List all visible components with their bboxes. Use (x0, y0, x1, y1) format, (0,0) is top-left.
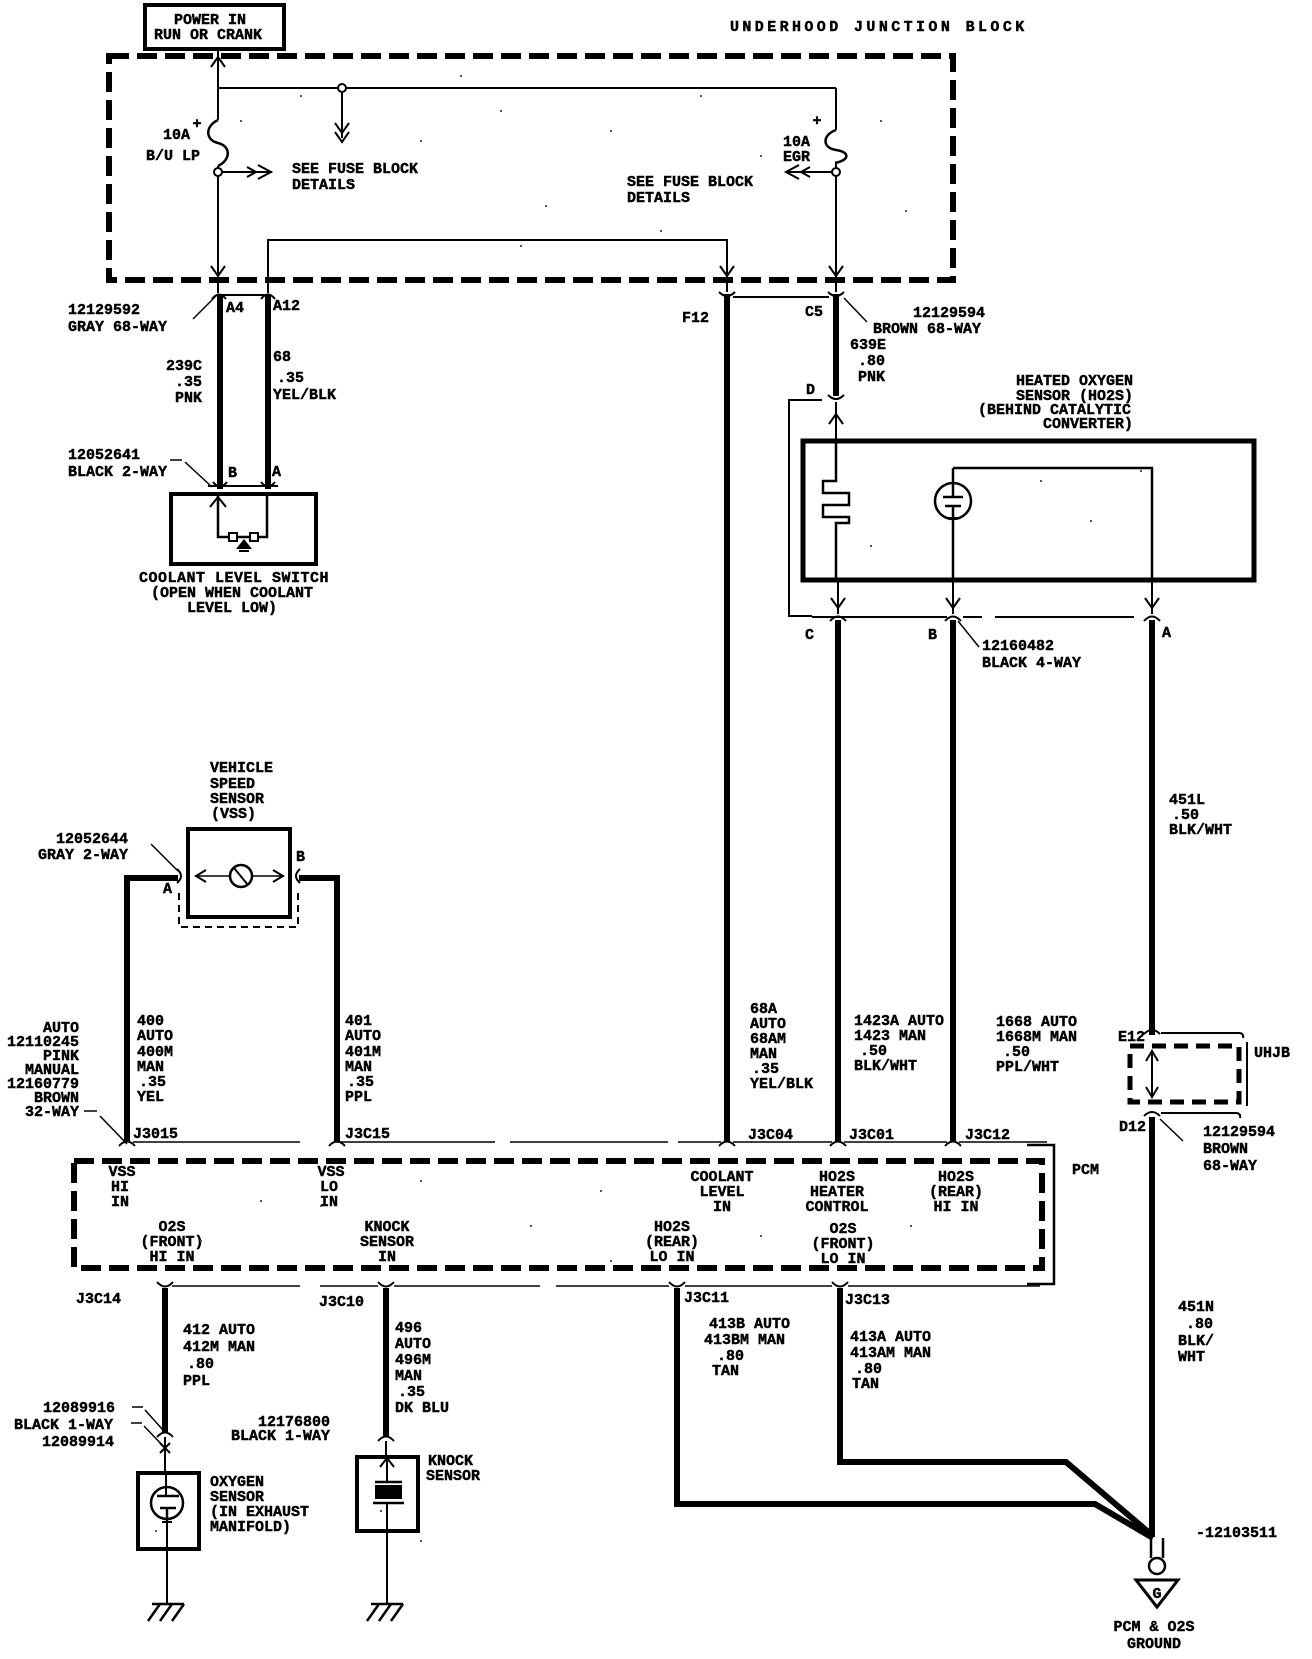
svg-text:B: B (296, 849, 305, 866)
svg-text:AUTO: AUTO (345, 1028, 381, 1045)
svg-text:YEL/BLK: YEL/BLK (273, 387, 336, 404)
wire 1668 PPL/WHT (B to PCM) (950, 620, 956, 1141)
svg-text:D: D (806, 382, 815, 399)
wire 401 PPL (VSS B to PCM) (299, 878, 337, 1141)
UHJB in-line connector E12/D12 (1118, 1029, 1290, 1175)
svg-text:BLK/WHT: BLK/WHT (854, 1058, 917, 1075)
svg-text:12089914: 12089914 (42, 1434, 114, 1451)
svg-text:DETAILS: DETAILS (292, 177, 355, 194)
svg-text:WHT: WHT (1178, 1349, 1205, 1366)
svg-text:HI IN: HI IN (149, 1249, 194, 1266)
svg-text:AUTO: AUTO (137, 1028, 173, 1045)
svg-text:413B AUTO: 413B AUTO (709, 1316, 790, 1333)
svg-text:IN: IN (320, 1194, 338, 1211)
svg-text:IN: IN (378, 1249, 396, 1266)
underhood junction block dashed box (109, 56, 953, 280)
sensor element circle (HO2S) (935, 483, 971, 519)
connector 12160482 BLACK 4-WAY terminal row (812, 616, 947, 618)
svg-text:A: A (1162, 625, 1171, 642)
leader 12129592 (193, 296, 216, 319)
svg-text:C5: C5 (805, 304, 823, 321)
connector 12052644 leader (151, 844, 178, 871)
node junction circle on bus (338, 84, 346, 92)
svg-text:12089916: 12089916 (43, 1400, 115, 1417)
terminal line F12-C5 (733, 296, 829, 298)
wire 413B TAN (J3C11 to ground junction) (677, 1288, 1153, 1538)
svg-text:LO IN: LO IN (649, 1249, 694, 1266)
svg-text:(VSS): (VSS) (211, 806, 256, 823)
scan speckle noise (155, 75, 1142, 1542)
switch contacts (229, 533, 237, 541)
connector 12129592 terminal line A4-A12 (217, 294, 270, 296)
float triangle (236, 539, 252, 549)
svg-text:UHJB: UHJB (1254, 1045, 1290, 1062)
svg-text:J3C10: J3C10 (319, 1294, 364, 1311)
exit wires with arrows (837, 580, 839, 614)
svg-text:J3015: J3015 (133, 1126, 178, 1143)
svg-text:A: A (272, 464, 281, 481)
svg-text:MANIFOLD): MANIFOLD) (210, 1519, 291, 1536)
svg-text:DK BLU: DK BLU (395, 1400, 449, 1417)
svg-text:TAN: TAN (712, 1363, 739, 1380)
ground symbol G triangle (1136, 1580, 1178, 1607)
wire 1423A BLK/WHT (C to PCM) (835, 620, 841, 1141)
node circle below right fuse (832, 168, 840, 176)
oxygen sensor box (138, 1473, 199, 1549)
wire 413A TAN (J3C13 to ground junction) (840, 1288, 1153, 1536)
svg-text:HI IN: HI IN (933, 1199, 978, 1216)
svg-text:496M: 496M (395, 1352, 431, 1369)
svg-text:BLACK 2-WAY: BLACK 2-WAY (68, 464, 167, 481)
connector 12052641 leader (170, 459, 182, 461)
svg-text:412M MAN: 412M MAN (183, 1339, 255, 1356)
svg-text:CONVERTER): CONVERTER) (1043, 416, 1133, 433)
svg-text:J3C01: J3C01 (849, 1127, 894, 1144)
wire below left fuse (217, 166, 219, 281)
svg-text:SEE FUSE BLOCK: SEE FUSE BLOCK (627, 174, 753, 191)
svg-text:SENSOR: SENSOR (426, 1468, 480, 1485)
svg-text:J3C14: J3C14 (76, 1291, 121, 1308)
PCM bottom terminal row (172, 1285, 300, 1287)
svg-text:A4: A4 (226, 300, 244, 317)
switch internals (218, 496, 267, 537)
svg-text:PNK: PNK (175, 390, 202, 407)
heated oxygen sensor HO2S box (803, 441, 1254, 580)
svg-text:12129594: 12129594 (1203, 1124, 1275, 1141)
svg-text:.80: .80 (1186, 1316, 1213, 1333)
terminal B (VSS right) (296, 869, 300, 883)
PCM top terminal row (133, 1141, 300, 1143)
svg-text:+: + (812, 113, 821, 130)
svg-text:.35: .35 (398, 1384, 425, 1401)
svg-text:32-WAY: 32-WAY (25, 1104, 79, 1121)
svg-text:12129594: 12129594 (913, 305, 985, 322)
arrow down into C5 (829, 266, 843, 276)
jumper wire A12 to F12 inside junction block (268, 240, 727, 293)
svg-text:413BM MAN: 413BM MAN (704, 1332, 785, 1349)
svg-text:496: 496 (395, 1320, 422, 1337)
ground symbol (knock sensor) (371, 1603, 403, 1606)
wire F12 to PCM coolant level in (724, 294, 730, 1141)
svg-text:J3C12: J3C12 (965, 1127, 1010, 1144)
VSS pickup circle (230, 865, 252, 887)
heater element coil (823, 441, 849, 580)
arrow to SEE FUSE BLOCK DETAILS (left) (222, 171, 272, 173)
arrow down into F12 (720, 266, 734, 276)
wire 400 YEL (VSS A to PCM) (127, 878, 178, 1141)
svg-text:239C: 239C (166, 358, 202, 375)
wire 451L BLK/WHT (A to UHJB E12) (1149, 620, 1155, 1035)
coolant level switch box (171, 494, 316, 564)
vehicle speed sensor VSS box (188, 829, 290, 917)
wire horizontal bus (218, 87, 836, 89)
svg-text:PPL: PPL (183, 1373, 210, 1390)
terminal A (VSS left) (177, 869, 181, 883)
svg-text:DETAILS: DETAILS (627, 190, 690, 207)
svg-text:.80: .80 (187, 1356, 214, 1373)
svg-text:J3C11: J3C11 (684, 1290, 729, 1307)
internal wire to pin A (953, 468, 1152, 580)
svg-text:AUTO: AUTO (395, 1336, 431, 1353)
arrow to SEE FUSE BLOCK DETAILS (right) (786, 171, 832, 173)
wire C5 down to D (833, 294, 839, 396)
ground symbol (oxygen sensor) (152, 1603, 184, 1606)
arrow up at junction block entry (211, 57, 225, 67)
svg-text:12129592: 12129592 (68, 302, 140, 319)
svg-text:E12: E12 (1118, 1029, 1145, 1046)
svg-text:413AM MAN: 413AM MAN (850, 1345, 931, 1362)
svg-text:B: B (928, 627, 937, 644)
svg-text:F12: F12 (682, 310, 709, 327)
svg-text:A: A (163, 881, 172, 898)
svg-text:412 AUTO: 412 AUTO (183, 1322, 255, 1339)
in-line connector at knock sensor (378, 1437, 394, 1442)
svg-text:.80: .80 (858, 353, 885, 370)
svg-text:J3C15: J3C15 (345, 1126, 390, 1143)
svg-text:PCM: PCM (1072, 1162, 1099, 1179)
svg-text:PPL/WHT: PPL/WHT (996, 1059, 1059, 1076)
svg-text:12052644: 12052644 (56, 831, 128, 848)
svg-text:639E: 639E (850, 337, 886, 354)
POWER IN RUN OR CRANK box (145, 5, 284, 49)
connector 12129594 leader (C5) (844, 298, 867, 322)
knock sensor element (380, 1458, 394, 1467)
node circle below left fuse (214, 168, 222, 176)
svg-text:UNDERHOOD JUNCTION BLOCK: UNDERHOOD JUNCTION BLOCK (730, 19, 1028, 36)
svg-text:RUN OR CRANK: RUN OR CRANK (154, 27, 262, 44)
svg-text:BLACK 1-WAY: BLACK 1-WAY (14, 1417, 113, 1434)
svg-text:GRAY 68-WAY: GRAY 68-WAY (68, 319, 167, 336)
fuse 10A B/U LP (146, 116, 228, 166)
wire 68 (A12 to coolant switch A) (265, 296, 271, 489)
ring terminal 12103511 (1150, 1538, 1153, 1558)
svg-text:413A AUTO: 413A AUTO (850, 1329, 931, 1346)
svg-text:BROWN: BROWN (1203, 1141, 1248, 1158)
svg-text:YEL: YEL (137, 1089, 164, 1106)
svg-text:LO IN: LO IN (820, 1251, 865, 1268)
fuse 10A EGR (783, 113, 846, 166)
in-line connector at oxygen sensor (157, 1433, 173, 1438)
svg-text:.35: .35 (277, 370, 304, 387)
svg-text:68: 68 (273, 349, 291, 366)
svg-text:TAN: TAN (852, 1376, 879, 1393)
svg-text:LEVEL LOW): LEVEL LOW) (187, 600, 277, 617)
wire below right fuse (835, 88, 837, 130)
wire to ground (166, 1549, 168, 1604)
svg-text:12052641: 12052641 (68, 447, 140, 464)
PCM dashed box (74, 1161, 1042, 1268)
svg-text:.35: .35 (175, 374, 202, 391)
svg-text:J3C13: J3C13 (845, 1292, 890, 1309)
svg-text:GROUND: GROUND (1127, 1636, 1181, 1653)
svg-text:C: C (805, 627, 814, 644)
dashed connector outline under VSS (179, 893, 298, 927)
svg-text:J3C04: J3C04 (748, 1127, 793, 1144)
svg-text:-12103511: -12103511 (1196, 1525, 1277, 1542)
PCM bracket (1027, 1145, 1054, 1284)
svg-text:IN: IN (713, 1199, 731, 1216)
svg-text:BLACK 4-WAY: BLACK 4-WAY (982, 655, 1081, 672)
svg-text:SEE FUSE BLOCK: SEE FUSE BLOCK (292, 161, 418, 178)
wire 496 DK BLU (J3C10 to knock sensor) (383, 1288, 389, 1437)
VSS internal line with arrows (195, 875, 284, 877)
svg-text:10A: 10A (163, 127, 190, 144)
knock sensor box (357, 1457, 418, 1531)
svg-text:+: + (192, 116, 201, 133)
svg-text:B/U LP: B/U LP (146, 148, 200, 165)
svg-text:68-WAY: 68-WAY (1203, 1158, 1257, 1175)
wire 412 PPL (J3C14 to oxygen sensor) (162, 1288, 168, 1433)
svg-text:D12: D12 (1119, 1119, 1146, 1136)
wire 451N (D12 to ground) (1149, 1117, 1155, 1537)
svg-text:B: B (228, 465, 237, 482)
wire to ground (386, 1531, 388, 1604)
svg-text:PNK: PNK (858, 369, 885, 386)
svg-text:GRAY 2-WAY: GRAY 2-WAY (38, 847, 128, 864)
svg-text:VEHICLE: VEHICLE (210, 760, 273, 777)
svg-text:YEL/BLK: YEL/BLK (750, 1076, 813, 1093)
svg-text:BROWN 68-WAY: BROWN 68-WAY (873, 321, 981, 338)
svg-text:451N: 451N (1178, 1299, 1214, 1316)
svg-text:IN: IN (111, 1194, 129, 1211)
svg-text:CONTROL: CONTROL (805, 1199, 868, 1216)
wire from POWER IN into junction block (217, 49, 219, 120)
svg-text:A12: A12 (273, 298, 300, 315)
svg-text:PCM & O2S: PCM & O2S (1113, 1619, 1194, 1636)
wire D to HO2S box (835, 402, 837, 441)
svg-text:EGR: EGR (783, 149, 810, 166)
arrow down into A4 (211, 266, 225, 276)
svg-text:12160482: 12160482 (982, 638, 1054, 655)
svg-text:G: G (1152, 1586, 1161, 1603)
svg-text:MAN: MAN (395, 1368, 422, 1385)
wire arrow down from bus node (341, 92, 343, 138)
svg-text:BLACK 1-WAY: BLACK 1-WAY (231, 1428, 330, 1445)
wire 239C (A4 to coolant switch B) (217, 296, 223, 489)
svg-text:BLK/WHT: BLK/WHT (1169, 822, 1232, 839)
oxygen sensor element (151, 1487, 183, 1519)
svg-text:PPL: PPL (345, 1089, 372, 1106)
svg-text:BLK/: BLK/ (1178, 1333, 1214, 1350)
